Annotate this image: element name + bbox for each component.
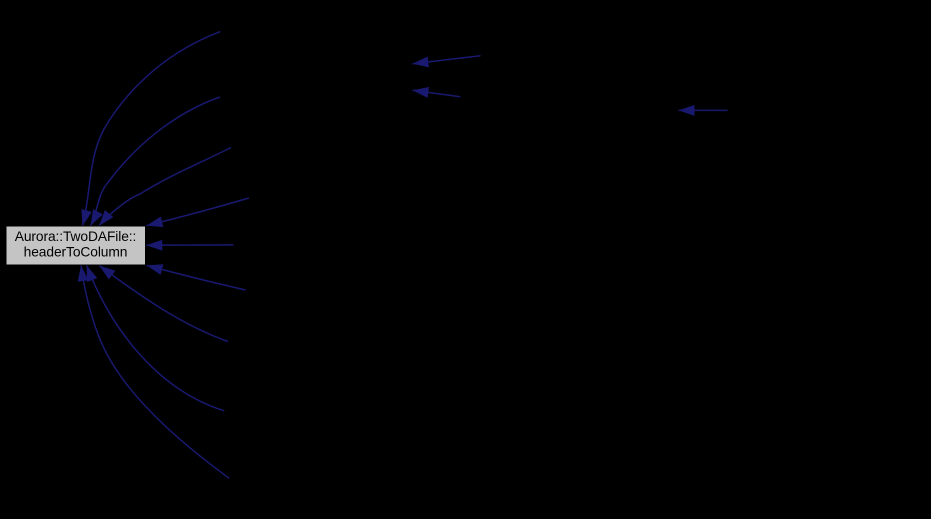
edge D: caller row4 to headerToColumn (into top-right corner) [147,198,249,226]
edge HOR: caller row5 to headerToColumn (horizontal) [146,244,233,246]
edge H: caller row9 to headerToColumn (bottom-most arc) [81,265,229,478]
svg-text:Aurora::TwoDAFile::: Aurora::TwoDAFile:: [15,229,137,244]
edge K: level3 caller arrow (far right) [679,109,728,111]
edge F: caller row7 to headerToColumn [99,266,228,342]
edge G: caller row8 to headerToColumn [87,265,225,411]
edge J: level2 caller arrow into node row2 [413,90,461,97]
edge B: caller row2 to headerToColumn [91,97,221,226]
node Aurora::TwoDAFile::headerToColumn [6,226,146,265]
edge I: level2 caller arrow into node row1 [413,56,481,64]
edge C: caller row3 to headerToColumn [99,148,231,226]
edge E: caller row6 to headerToColumn (into bottom-right corner) [147,265,246,290]
svg-text:headerToColumn: headerToColumn [24,244,128,259]
edge A: caller row1 to headerToColumn (top-most arc) [83,32,221,226]
